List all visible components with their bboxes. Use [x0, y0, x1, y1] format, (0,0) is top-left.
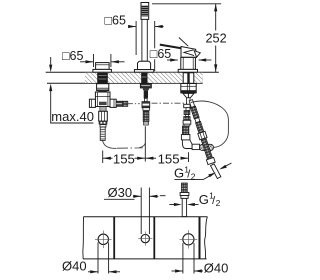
svg-text:Ø40: Ø40 — [62, 258, 87, 273]
G half label upper — [174, 163, 232, 182]
hand shower hose thin tube — [144, 98, 147, 101]
hand shower handle — [142, 19, 147, 61]
dimension 155 left segment — [103, 152, 145, 167]
svg-text:□65: □65 — [62, 49, 84, 63]
hand shower hose nut below deck — [140, 84, 151, 88]
mixer head body — [181, 47, 197, 58]
hand shower holder block — [138, 61, 151, 69]
svg-text:252: 252 — [206, 32, 227, 46]
dimension square65 right: text — [149, 47, 172, 61]
deck top line — [46, 71, 219, 73]
mixer shank through deck — [183, 73, 194, 84]
left valve right arm — [110, 99, 116, 107]
mixer hose elbow — [182, 140, 192, 149]
plan strip divider 2 — [153, 217, 155, 259]
max.40 text — [51, 109, 94, 124]
left valve mounting nut below deck — [97, 84, 109, 91]
left hole circle — [95, 231, 112, 249]
svg-text:G: G — [199, 192, 209, 207]
svg-text:□65: □65 — [105, 13, 127, 27]
mixer head right flag — [194, 51, 200, 58]
deck end edge — [202, 77, 204, 84]
deck hatch — [85, 73, 203, 83]
plan strip bottom line — [83, 258, 207, 260]
left valve threaded tail — [100, 127, 105, 140]
horizontal hose nut — [192, 144, 200, 149]
left valve escutcheon — [93, 69, 112, 72]
max.40 dimension upper arrow — [49, 57, 52, 72]
left valve collar bars — [100, 125, 106, 127]
plan strip right break edge — [205, 217, 208, 259]
dimension diameter40 right: text and arrows — [172, 260, 229, 275]
svg-text:155: 155 — [113, 152, 135, 167]
svg-text:Ø40: Ø40 — [204, 260, 229, 275]
svg-text:155: 155 — [158, 152, 180, 167]
left valve neck step — [98, 90, 107, 92]
plan strip left break edge — [82, 217, 85, 259]
mixer diagonal hose — [187, 99, 215, 165]
hand shower head — [141, 3, 149, 20]
plan strip divider 1 — [113, 217, 115, 259]
plan strip divider 3 — [199, 217, 201, 259]
dimension square65 top: arrows — [128, 25, 164, 28]
hand shower hose dark segment — [144, 90, 148, 98]
dimension 155 ticks — [103, 126, 189, 163]
mixer escutcheon — [178, 69, 197, 72]
dimension 252 extension line — [152, 3, 221, 5]
left valve lower adapter — [100, 107, 106, 112]
plan strip top line — [83, 216, 207, 218]
dimension square65 top: extension lines — [136, 21, 155, 71]
hose U curve from left valve to shower hose — [103, 140, 146, 148]
hand shower holder escutcheon — [134, 70, 153, 73]
dimension diameter30: extension lines — [141, 188, 149, 235]
dimension diameter40 left: text and arrows — [62, 258, 120, 273]
dash-dot centerline through valve axis — [128, 102, 190, 105]
hand shower hose tip — [144, 121, 149, 125]
left valve side nipple — [116, 101, 122, 106]
left valve lower hex — [99, 111, 108, 121]
svg-text:max.40: max.40 — [51, 109, 94, 124]
left valve left arm — [89, 99, 95, 107]
mixer lever thin diagonal — [179, 38, 188, 47]
svg-text:□65: □65 — [150, 47, 172, 61]
hand shower hose braid sleeve — [143, 111, 149, 121]
plan view connection pipe braid — [181, 183, 187, 193]
left valve knob — [96, 63, 110, 70]
hand shower hose step — [143, 108, 150, 111]
left valve nipple braided tip — [123, 101, 128, 106]
dimension 252 vertical line with arrows — [214, 4, 217, 72]
left valve dark collar — [99, 121, 108, 125]
dimension diameter40 right: extension lines — [183, 243, 194, 274]
right hole circle — [180, 230, 198, 248]
dimension square65 left: text — [62, 49, 84, 63]
left valve body — [95, 92, 110, 107]
dimension diameter40 left: extension lines — [98, 243, 109, 274]
G half label lower — [160, 191, 221, 208]
mixer hose end tube — [211, 164, 221, 179]
mixer mounting nut below deck — [181, 84, 196, 91]
mixer lever thick bar — [160, 45, 182, 49]
svg-text:Ø30: Ø30 — [108, 185, 133, 200]
dimension diameter30: text and arrows — [104, 185, 158, 200]
hand shower hose hex connector — [142, 102, 150, 108]
left valve shank through deck — [97, 73, 108, 84]
center hole circle — [138, 232, 152, 246]
hand shower hose neck — [143, 88, 149, 90]
svg-text:G: G — [174, 166, 184, 181]
mixer funnel — [183, 93, 194, 97]
svg-text:2: 2 — [216, 198, 221, 208]
deck bottom line — [47, 82, 203, 84]
horizontal braided hose end — [200, 144, 214, 150]
dimension square65 right: arrows — [167, 58, 211, 61]
dimension square65 top: text — [103, 13, 130, 27]
mixer flange dark bar — [180, 91, 196, 94]
plan view connection pipe nut — [180, 193, 189, 199]
hand shower hose loop — [191, 101, 229, 147]
plan view connection pipe tube — [182, 198, 186, 216]
dimension 252 text — [206, 32, 227, 46]
max.40 dimension lower arrow and line — [49, 84, 93, 124]
mixer vertical hose segments — [181, 98, 190, 140]
dimension 155 right segment — [146, 152, 189, 167]
hand shower hose shank through deck — [141, 73, 147, 84]
mixer base — [181, 57, 196, 69]
dimension square65 left: lines and arrows — [80, 54, 125, 67]
